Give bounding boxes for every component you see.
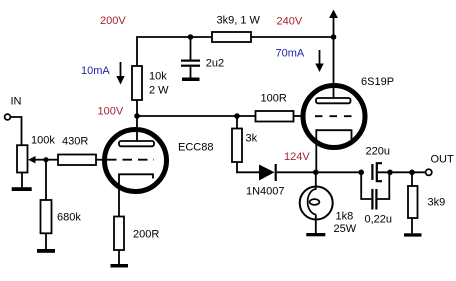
node: junction 240V bbox=[331, 34, 337, 40]
resistor 3k9 1W bbox=[212, 32, 251, 42]
node: junction 200V/2u2 bbox=[188, 34, 194, 40]
svg-text:IN: IN bbox=[11, 96, 22, 108]
ground (below 3k9) bbox=[404, 233, 422, 236]
resistor 100R bbox=[256, 111, 294, 122]
svg-text:1N4007: 1N4007 bbox=[246, 185, 285, 197]
ECC88 grid (dashed) bbox=[107, 159, 154, 161]
wire: 3k bottom to output row bbox=[237, 162, 260, 172]
svg-text:ECC88: ECC88 bbox=[178, 142, 213, 154]
ground (below 200R) bbox=[111, 264, 129, 268]
node: 124V cathode node bbox=[313, 170, 319, 176]
svg-text:0,22u: 0,22u bbox=[365, 214, 393, 226]
ground (below lamp) bbox=[306, 233, 325, 236]
svg-text:10mA: 10mA bbox=[81, 65, 110, 77]
tube 6S19P envelope U2 bbox=[303, 86, 365, 148]
resistor 3k9 (load) bbox=[408, 186, 418, 218]
svg-text:2 W: 2 W bbox=[149, 85, 169, 97]
svg-text:3k9: 3k9 bbox=[428, 196, 446, 208]
node: junction right of 220u bbox=[387, 170, 393, 176]
resistor 10k 2W bbox=[132, 66, 142, 100]
wire: node down to 2u2 bbox=[190, 37, 192, 60]
svg-text:OUT: OUT bbox=[431, 153, 455, 165]
wiper arrow bbox=[28, 156, 46, 163]
potentiometer 100k bbox=[17, 145, 28, 172]
svg-text:100V: 100V bbox=[98, 106, 124, 118]
capacitor 0,22u bbox=[372, 189, 376, 210]
wire: 680k to ground bbox=[45, 233, 47, 249]
svg-text:200R: 200R bbox=[133, 229, 159, 241]
capacitor 220u (electrolytic) bbox=[372, 163, 382, 181]
wire: 10k bottom to 100V node bbox=[136, 100, 138, 116]
wire: 100V node to 100R bbox=[137, 115, 256, 117]
resistor 430R bbox=[58, 155, 96, 166]
svg-text:3k9, 1 W: 3k9, 1 W bbox=[217, 15, 261, 27]
svg-text:10k: 10k bbox=[149, 71, 167, 83]
svg-text:1k8: 1k8 bbox=[336, 210, 354, 222]
svg-text:200V: 200V bbox=[100, 15, 126, 27]
wire: 3k9 to ground bbox=[411, 218, 413, 233]
node: junction 3k9 tap bbox=[409, 170, 415, 176]
node: junction left of 220u bbox=[358, 170, 364, 176]
wire: diode to cathode node bbox=[277, 171, 361, 173]
svg-text:100R: 100R bbox=[261, 93, 287, 105]
wire: 240V node down to 6S19P anode bbox=[333, 37, 335, 98]
capacitor 2u2 bbox=[181, 60, 200, 67]
wire: lower branch to 0,22u bbox=[361, 172, 371, 199]
tube ECC88 envelope U1 bbox=[105, 130, 167, 192]
svg-text:100k: 100k bbox=[31, 135, 55, 147]
resistor 3k bbox=[232, 118, 242, 162]
wire: lamp to ground bbox=[315, 215, 317, 234]
svg-text:70mA: 70mA bbox=[276, 48, 305, 60]
wire: anode lead bbox=[136, 116, 138, 141]
wire: node down to lamp bbox=[315, 172, 317, 187]
wire: 0,22u up to node bbox=[378, 172, 390, 199]
node: 100V anode node bbox=[134, 113, 140, 119]
svg-text:680k: 680k bbox=[57, 211, 81, 223]
power arrow B+ up bbox=[329, 10, 338, 38]
ground (below 680k) bbox=[37, 249, 55, 253]
current arrow 70mA down bbox=[315, 50, 323, 72]
wire: 200R to ground bbox=[118, 250, 120, 264]
wire: IN to 100k pot top bbox=[11, 117, 22, 145]
svg-text:430R: 430R bbox=[62, 135, 88, 147]
svg-text:124V: 124V bbox=[284, 151, 310, 163]
ECC88 cathode and lead bbox=[119, 174, 153, 216]
wire: 200V rail corner down to 10k top bbox=[137, 37, 212, 66]
svg-text:2u2: 2u2 bbox=[206, 58, 224, 70]
wire: junction down to 680k bbox=[45, 161, 47, 200]
6S19P grid (dashed) bbox=[315, 115, 352, 117]
ECC88 anode plate bbox=[119, 141, 154, 146]
svg-text:25W: 25W bbox=[334, 223, 357, 235]
6S19P anode plate bbox=[316, 98, 351, 103]
node: wiper junction bbox=[43, 157, 48, 162]
lamp 1k8 25W envelope bbox=[300, 187, 333, 220]
lamp filament coil bbox=[308, 187, 320, 215]
ground (below pot) bbox=[12, 187, 32, 191]
svg-text:6S19P: 6S19P bbox=[361, 76, 394, 88]
svg-text:240V: 240V bbox=[277, 16, 303, 28]
output terminal OUT bbox=[426, 169, 432, 175]
input terminal IN bbox=[5, 114, 11, 120]
svg-text:220u: 220u bbox=[366, 145, 390, 157]
wire: bracket to OUT terminal bbox=[378, 171, 426, 173]
wire: pot bottom to ground bbox=[21, 173, 23, 188]
wire: rail from 3k9 to 240V node bbox=[251, 36, 334, 38]
ground (below 2u2) bbox=[182, 78, 200, 82]
6S19P cathode and lead bbox=[316, 130, 351, 172]
resistor 680k bbox=[41, 200, 52, 233]
wire: grid lead from 430R bbox=[96, 159, 105, 161]
resistor 200R bbox=[114, 217, 124, 251]
node: junction 3k tap bbox=[234, 113, 240, 119]
wire: 2u2 to ground bbox=[190, 67, 192, 78]
current arrow 10mA down bbox=[116, 62, 124, 85]
wire: 3k9 tap down bbox=[411, 172, 413, 186]
wire: junction to 430R bbox=[46, 159, 58, 161]
wire: 100R to 6S19P grid bbox=[294, 115, 305, 117]
svg-text:3k: 3k bbox=[246, 132, 258, 144]
diode 1N4007 bbox=[259, 164, 276, 181]
